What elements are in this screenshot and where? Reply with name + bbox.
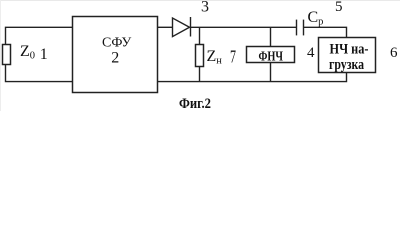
svg-text:2: 2: [111, 49, 119, 66]
svg-text:грузка: грузка: [329, 57, 365, 73]
svg-text:7: 7: [230, 46, 236, 66]
svg-text:Фиг.2: Фиг.2: [179, 96, 211, 111]
svg-text:Zн: Zн: [207, 48, 223, 67]
svg-text:НЧ на-: НЧ на-: [330, 42, 369, 58]
svg-text:Cр: Cр: [308, 9, 324, 28]
svg-text:4: 4: [307, 45, 315, 61]
svg-text:6: 6: [390, 45, 398, 61]
svg-text:3: 3: [201, 0, 209, 16]
svg-text:1: 1: [40, 46, 48, 63]
svg-text:5: 5: [335, 0, 343, 15]
svg-text:ФНЧ: ФНЧ: [259, 50, 284, 65]
svg-text:Z0: Z0: [20, 43, 35, 62]
svg-text:СФУ: СФУ: [102, 36, 131, 51]
